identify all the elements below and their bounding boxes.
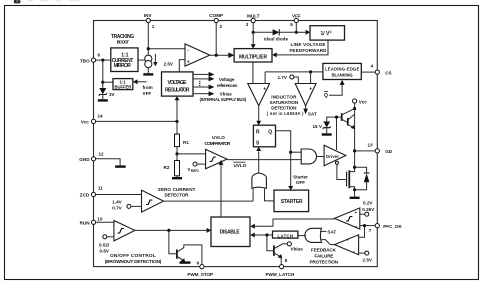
wire TBO to mirror: [96, 59, 111, 61]
svg-text:R1: R1: [183, 140, 189, 145]
wire Q node to AND gate: [291, 151, 302, 153]
wire INV pin down: [147, 22, 149, 55]
wire from VFF arrow into buffer: [137, 81, 146, 83]
svg-text:+: +: [355, 210, 358, 215]
svg-text:R: R: [256, 130, 260, 136]
wire CS line into comp1 plus: [264, 72, 266, 84]
svg-text:ZERO CURRENT: ZERO CURRENT: [158, 187, 196, 192]
label zero current detector: [158, 187, 196, 198]
svg-text:2.5V: 2.5V: [363, 257, 373, 262]
wire OR to LATCH: [298, 235, 306, 237]
svg-text:0.2V: 0.2V: [363, 200, 373, 205]
svg-text:(BROWNOUT DETECTION): (BROWNOUT DETECTION): [105, 259, 162, 265]
svg-text:1.7V: 1.7V: [278, 75, 288, 80]
wire VFF node to 1/V2 box with arrow: [296, 31, 306, 33]
wire driver bases 15V node: [336, 117, 338, 150]
driver triangle: [324, 145, 346, 166]
block STARTER: [274, 190, 309, 212]
diode MOSFET body: [355, 167, 370, 190]
comparator current sense: [248, 84, 270, 106]
svg-text:12: 12: [99, 151, 105, 156]
svg-text:SAT: SAT: [327, 230, 336, 235]
svg-text:2: 2: [220, 24, 223, 29]
svg-text:from: from: [143, 85, 153, 90]
svg-text:BOOST: BOOST: [117, 39, 130, 44]
supply Vbias: [287, 242, 303, 252]
svg-text:15 V: 15 V: [313, 124, 323, 129]
wire COMP pin down: [215, 22, 217, 55]
comparator inductor saturation: [295, 84, 316, 106]
reference 1.4V/0.7V: [112, 200, 141, 211]
arrow into starter: [288, 186, 293, 190]
block LATCH: [273, 231, 298, 238]
transistor MOSFET: [347, 167, 355, 190]
wire totem rail down to GD: [354, 109, 356, 168]
svg-text:Driver: Driver: [326, 154, 339, 159]
svg-text:(INTERNAL SUPPLY BUS): (INTERNAL SUPPLY BUS): [200, 97, 247, 102]
comparator UVLO: [206, 149, 227, 168]
svg-text:5: 5: [290, 22, 293, 27]
wire current source to ground: [147, 68, 149, 74]
wire GD pin: [355, 150, 376, 152]
svg-text:MULT: MULT: [247, 13, 260, 18]
svg-text:0.26V: 0.26V: [362, 207, 375, 212]
block LEADING-EDGE BLANKING: [323, 63, 361, 79]
wire RUN comparator output to DISABLE: [135, 229, 207, 231]
svg-text:2: 2: [330, 30, 332, 34]
svg-text:DETECTION: DETECTION: [271, 106, 297, 111]
label UVLO net: [234, 162, 247, 168]
wire RUN pin to comparator: [96, 221, 114, 223]
label on/off control: [105, 253, 162, 265]
svg-text:INDUCTOR: INDUCTOR: [271, 95, 297, 100]
pin COMP: [209, 13, 223, 29]
wire MULT node to ideal diode: [253, 31, 272, 33]
comparator RUN on/off: [114, 221, 135, 241]
transistor Q totem upper: [337, 109, 355, 123]
svg-text:LEADING-EDGE: LEADING-EDGE: [325, 67, 360, 72]
svg-text:FEEDBACK: FEEDBACK: [311, 248, 337, 253]
svg-text:ZCD: ZCD: [80, 193, 90, 198]
svg-text:3V: 3V: [109, 92, 116, 97]
pin PWM_LATCH: [266, 265, 295, 278]
label line voltage feedforward: [290, 42, 328, 53]
wire GND pin to ground: [96, 159, 121, 166]
svg-text:R2: R2: [164, 165, 170, 170]
svg-text:ideal diode: ideal diode: [264, 37, 288, 42]
pin GND: [79, 151, 104, 162]
svg-text:Vcc: Vcc: [81, 120, 90, 125]
reference 2.5V FFP: [359, 251, 373, 262]
svg-text:COMP: COMP: [209, 13, 223, 18]
svg-text:PFC_OK: PFC_OK: [383, 224, 402, 229]
svg-text:SAT: SAT: [308, 112, 317, 117]
svg-text:MULTIPLIER: MULTIPLIER: [239, 54, 267, 60]
wire UVLO output line: [227, 159, 301, 161]
svg-text:+: +: [187, 59, 190, 65]
pin GD: [368, 142, 393, 154]
current source (INV bias): [145, 54, 158, 68]
svg-text:9: 9: [197, 260, 200, 265]
op-amp error amplifier: [185, 44, 210, 66]
block 1/V2: [310, 26, 345, 40]
svg-text:Voltage: Voltage: [219, 77, 235, 82]
svg-text:BLANKING: BLANKING: [332, 73, 353, 78]
svg-text:MIRROR: MIRROR: [114, 63, 132, 69]
svg-text:DETECTOR: DETECTOR: [165, 193, 190, 198]
svg-text:10: 10: [97, 216, 103, 221]
svg-text:6: 6: [98, 52, 101, 57]
svg-text:0.6V: 0.6V: [100, 248, 110, 253]
svg-text:ON/OFF CONTROL: ON/OFF CONTROL: [110, 253, 156, 259]
flip-flop RS: [253, 125, 275, 147]
wire node to buffer box: [103, 81, 113, 83]
wire LEB to CS pin: [361, 71, 375, 73]
block MULTIPLIER: [234, 49, 272, 62]
pin CS: [371, 63, 392, 75]
svg-text:Vbias: Vbias: [220, 92, 233, 97]
resistor R2: [164, 154, 180, 177]
wire TBO node down to buffer node: [102, 60, 104, 82]
transistor Q totem lower: [348, 114, 355, 129]
svg-text:REF2: REF2: [191, 169, 199, 173]
ground under zener: [98, 99, 108, 101]
wire multiplier output into comparator: [252, 62, 254, 84]
svg-text:UVLO: UVLO: [234, 163, 247, 168]
pin RUN: [80, 216, 103, 225]
svg-text:VFF: VFF: [292, 13, 301, 18]
svg-text:CS: CS: [385, 70, 391, 75]
svg-text:REGULATOR: REGULATOR: [165, 87, 190, 93]
svg-text:2.5V: 2.5V: [164, 61, 174, 66]
svg-text:+: +: [309, 87, 312, 93]
reference 0.2V/0.26V: [360, 200, 375, 216]
wire driver bubble to gate: [337, 164, 346, 179]
pin PWM_STOP: [187, 265, 213, 278]
supply Vcc driver: [353, 99, 368, 110]
svg-text:PWM_STOP: PWM_STOP: [187, 272, 213, 277]
wire divider to UVLO comparator: [177, 153, 206, 155]
svg-text:0.7V: 0.7V: [112, 206, 122, 211]
svg-text:RUN: RUN: [80, 221, 91, 226]
svg-text:PWM_LATCH: PWM_LATCH: [266, 272, 295, 277]
comparator PFC_OK: [335, 208, 360, 230]
ground under R2: [172, 177, 182, 179]
wire 1/V2 output to multiplier: [277, 40, 329, 55]
wire FFP output into OR: [321, 240, 334, 245]
label inductor saturation detection: [267, 95, 304, 116]
svg-text:Starter: Starter: [293, 174, 308, 179]
svg-text:Q: Q: [324, 93, 328, 99]
wire SAT output arrow: [303, 106, 317, 117]
svg-text:references: references: [217, 83, 238, 88]
svg-text:PROTECTION: PROTECTION: [310, 260, 339, 265]
svg-text:STARTER: STARTER: [281, 199, 303, 205]
wire AND output to driver: [317, 156, 325, 158]
svg-text:+: +: [346, 238, 349, 243]
wire pin sense down to FFP plus: [359, 226, 365, 238]
svg-text:11: 11: [98, 186, 103, 191]
resistor R1: [175, 121, 190, 153]
svg-text:1.4V: 1.4V: [112, 200, 122, 205]
svg-text:INV: INV: [144, 13, 153, 18]
svg-text:13: 13: [368, 142, 374, 147]
block 1:1 CURRENT MIRROR: [111, 48, 138, 72]
block VOLTAGE REGULATOR: [162, 72, 194, 96]
svg-text:Q: Q: [268, 130, 272, 136]
gate OR (latch set): [305, 228, 321, 242]
wire OR right input from starter: [265, 189, 275, 201]
reference 0.52/0.8V: [99, 235, 114, 254]
pin TBO: [80, 52, 101, 63]
wire SAT into OR: [321, 230, 337, 235]
wire error amp output to multiplier with COMP node: [210, 54, 230, 56]
zener 15V: [313, 117, 337, 133]
gate AND (driver enable): [301, 149, 316, 164]
svg-text:0.52/: 0.52/: [99, 242, 110, 247]
ground under current source: [143, 73, 153, 75]
wire MULT pin down: [252, 22, 254, 32]
svg-text:DISABLE: DISABLE: [220, 230, 241, 236]
label TRACKING BOOST: [111, 34, 134, 44]
svg-text:OFF: OFF: [296, 180, 305, 185]
wire comp1 output to latch R: [258, 106, 260, 121]
wire Q output to AND and starter: [276, 131, 291, 187]
svg-text:Vbias: Vbias: [291, 246, 304, 251]
IC boundary box: [94, 21, 378, 267]
wire PFC comparator output to DISABLE: [255, 219, 335, 226]
svg-text:TBO: TBO: [80, 58, 90, 63]
wire CS line into comp2 plus: [310, 72, 312, 84]
svg-text:UVLO: UVLO: [212, 135, 225, 140]
svg-text:FAILURE: FAILURE: [315, 254, 334, 259]
pin INV: [144, 13, 155, 29]
wire error amp plus to voltage regulator: [179, 60, 185, 72]
arrows voltage references / Vbias: [193, 72, 247, 102]
block DISABLE: [211, 217, 250, 247]
svg-text:3: 3: [246, 22, 249, 27]
node VFF junction: [295, 31, 298, 34]
label UVLO COMPARATOR: [205, 135, 232, 146]
svg-text:GD: GD: [385, 149, 393, 154]
transistor PWM_LATCH: [267, 235, 287, 264]
gate OR (ZCD/starter): [252, 173, 267, 189]
comparator zero current detector: [142, 190, 164, 212]
wire Q to LEB: [324, 80, 345, 100]
wire PFC_OK pin to comparator minus: [360, 225, 375, 227]
svg-text:GND: GND: [79, 157, 90, 162]
svg-text:1: 1: [152, 24, 155, 29]
wire OR output to S: [258, 151, 260, 173]
reference VREF2: [188, 162, 206, 173]
wire ZCD output to OR: [164, 200, 254, 202]
svg-text:4: 4: [371, 63, 374, 68]
svg-text:FEEDFORWARD: FEEDFORWARD: [290, 48, 328, 53]
reference 1.7V: [278, 75, 299, 84]
block 1:1 BUFFER: [113, 79, 133, 90]
svg-text:SATURATION: SATURATION: [270, 100, 299, 105]
pin Vcc: [81, 114, 103, 125]
svg-text:7: 7: [369, 228, 372, 233]
transistor PWM_STOP: [169, 230, 202, 264]
label Starter OFF: [293, 174, 308, 185]
svg-text:COMPARATOR: COMPARATOR: [205, 141, 232, 146]
node INV junction: [147, 47, 150, 50]
svg-text:( not in L6563A ): ( not in L6563A ): [267, 111, 304, 116]
ground under 15V zener: [322, 133, 332, 135]
label feedback failure protection: [310, 248, 339, 265]
comparator feedback failure: [335, 235, 359, 255]
svg-text:VOLTAGE: VOLTAGE: [168, 80, 188, 86]
svg-text:14: 14: [98, 114, 104, 119]
wire MOSFET source to ground: [354, 190, 356, 197]
wire Vcc pin to regulator/R1: [96, 120, 178, 122]
wire ZCD pin to comparator: [96, 194, 142, 196]
wire OR left input from ZCD: [252, 189, 254, 201]
pin MULT: [246, 13, 260, 27]
arrow up into regulator bottom: [176, 100, 178, 122]
wire INV to error amp minus: [148, 48, 185, 50]
pin PFC_OK: [369, 224, 403, 233]
svg-text:BUFFER: BUFFER: [115, 85, 132, 90]
wire DISABLE to UVLO line arrow up: [220, 165, 222, 218]
wire VFF pin down: [295, 22, 297, 32]
svg-text:VFF: VFF: [143, 91, 152, 96]
wire LATCH to DISABLE: [255, 234, 273, 236]
zener diode 3V: [99, 82, 116, 99]
svg-text:8: 8: [285, 258, 288, 263]
caption remnant (cut off at top): [14, 0, 79, 3]
diode ideal diode: [264, 29, 296, 41]
svg-text:+: +: [263, 87, 266, 93]
pin VFF: [290, 13, 301, 27]
svg-text:Vcc: Vcc: [359, 99, 368, 104]
svg-text:LATCH: LATCH: [278, 233, 294, 238]
wire MULT node arrow down into multiplier: [252, 32, 254, 44]
wire mirror to current source: [138, 59, 145, 61]
wire CS sense line: [265, 71, 323, 73]
svg-text:LINE VOLTAGE: LINE VOLTAGE: [291, 42, 326, 47]
node MULT junction: [252, 31, 255, 34]
ground under PWM_STOP transistor: [180, 261, 191, 263]
pin ZCD: [80, 186, 104, 198]
